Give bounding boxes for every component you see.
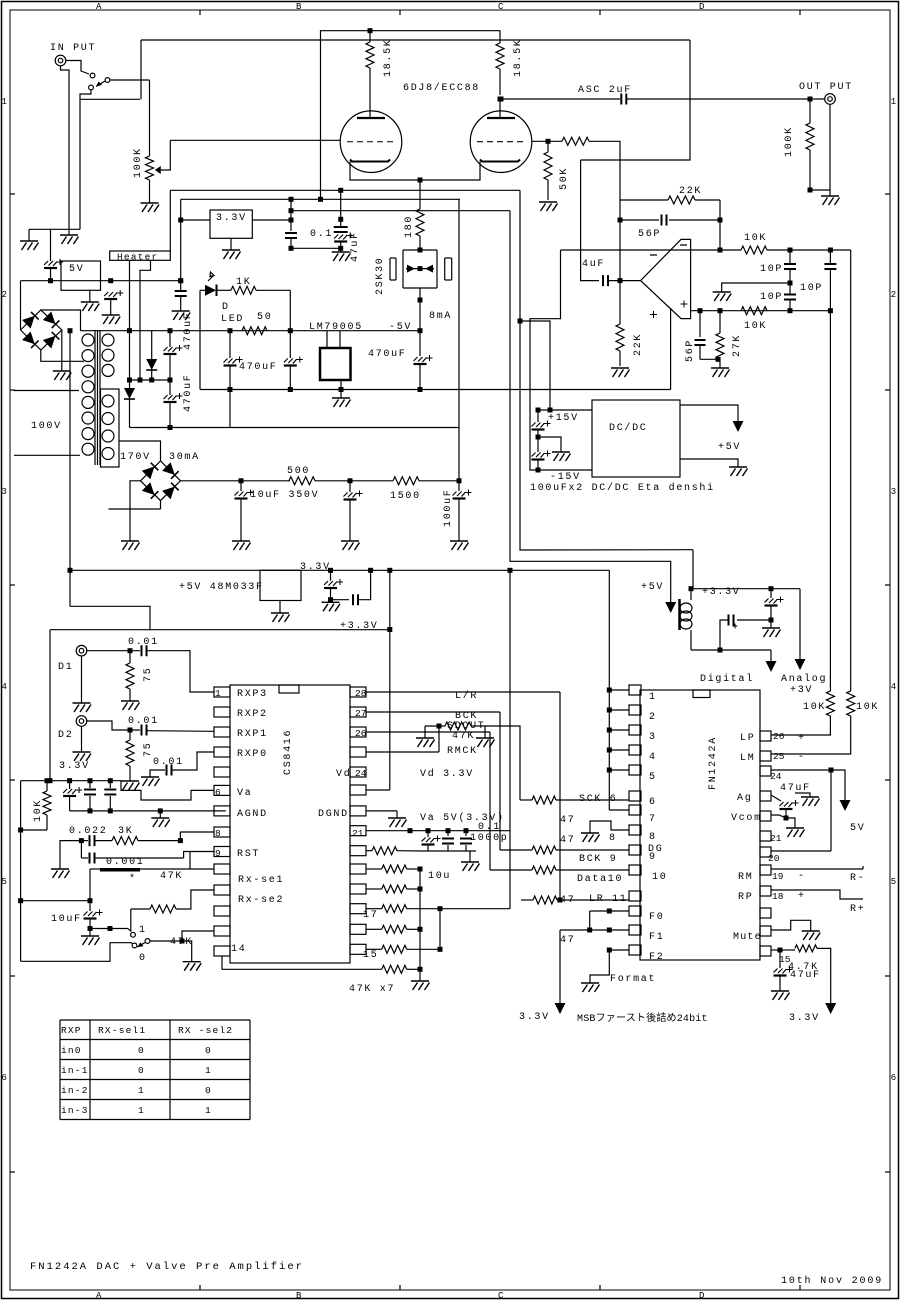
resistor 47K select1 <box>130 909 132 932</box>
svg-text:75: 75 <box>143 667 154 682</box>
svg-text:2: 2 <box>2 290 7 300</box>
border tick marks <box>199 10 201 15</box>
wire AGND into pin <box>225 810 227 812</box>
svg-text:RXP3: RXP3 <box>237 689 268 700</box>
svg-text:10uF 350V: 10uF 350V <box>250 490 319 501</box>
svg-text:0.01: 0.01 <box>128 637 159 648</box>
ground D2 jack <box>81 727 83 753</box>
svg-text:RXP: RXP <box>61 1025 82 1036</box>
wire +5V out of DC/DC <box>680 405 738 421</box>
input RCA jack J1 <box>55 55 66 66</box>
ground LM79005 <box>340 380 342 390</box>
wire rail to bridge <box>20 281 22 330</box>
resistor 1500 <box>393 477 419 485</box>
heater rail <box>81 330 421 332</box>
FN1242A right pin boxes <box>760 731 771 741</box>
svg-text:10K: 10K <box>744 321 767 332</box>
arrow Digital <box>766 661 777 672</box>
wire D1 to cap <box>87 650 140 652</box>
Heater label box <box>110 251 171 260</box>
svg-text:Vd 3.3V: Vd 3.3V <box>420 768 474 780</box>
svg-text:D: D <box>699 1291 704 1300</box>
capacitor 0.01 RXP0 <box>150 770 165 777</box>
capacitor 47uF mute <box>779 950 781 968</box>
svg-text:1000p: 1000p <box>470 833 509 844</box>
capacitor 100uF <box>458 481 460 491</box>
wire RM output <box>771 868 863 870</box>
svg-text:30mA: 30mA <box>169 452 200 463</box>
svg-text:47uF: 47uF <box>790 970 821 981</box>
switch S2 <box>131 932 136 937</box>
svg-text:Mute: Mute <box>733 932 762 943</box>
svg-text:26: 26 <box>773 731 785 742</box>
resistor 500 <box>289 477 315 485</box>
resistor 47K row18 <box>366 888 382 890</box>
svg-text:-5V: -5V <box>389 322 412 333</box>
svg-text:470uF: 470uF <box>183 373 194 412</box>
capacitor Va mid <box>89 781 91 788</box>
resistor 10K lower <box>741 307 767 315</box>
wire 3.3V drop to Va5V <box>509 570 511 908</box>
svg-text:RXP1: RXP1 <box>237 729 268 740</box>
capacitor electrolytic 5V input <box>44 261 57 266</box>
svg-text:17: 17 <box>363 910 378 921</box>
svg-text:18.5K: 18.5K <box>513 38 524 77</box>
wire DGND <box>366 810 397 812</box>
capacitor 0.1 x291 <box>290 199 292 231</box>
resistor 75 D2 <box>129 730 131 740</box>
svg-text:Vcom: Vcom <box>731 813 762 824</box>
svg-text:3: 3 <box>649 732 657 743</box>
ground RMCK right <box>484 726 486 738</box>
wire Va staircase to pin6 <box>110 781 214 800</box>
svg-text:3: 3 <box>891 487 896 497</box>
svg-text:+5V: +5V <box>718 442 741 453</box>
svg-text:RXP2: RXP2 <box>237 709 268 720</box>
capacitor 100uF x2 lower <box>537 437 539 452</box>
capacitor polarized small <box>737 619 771 621</box>
ground between 10P caps <box>722 283 790 292</box>
wire 3K to pin8 <box>180 832 214 841</box>
ground DC/DC input <box>538 437 561 452</box>
svg-text:1: 1 <box>649 692 657 703</box>
input jack D1 <box>76 645 87 656</box>
svg-text:0: 0 <box>205 1045 212 1056</box>
svg-text:10P: 10P <box>800 283 823 294</box>
capacitor 470uF left <box>229 331 231 358</box>
potentiometer 100K <box>149 80 151 156</box>
arrow 3.3V mute <box>825 1003 836 1014</box>
wire F1 to 3.3V arrow <box>560 929 629 931</box>
svg-text:5: 5 <box>891 877 896 887</box>
wire input to 4uF <box>581 160 599 281</box>
Va bus <box>21 780 111 782</box>
wire 3.3V reg out <box>252 219 291 221</box>
wire switch common to trunk <box>110 79 150 81</box>
wire to caps upper <box>788 248 793 253</box>
svg-text:1: 1 <box>139 925 147 936</box>
wire switch 0 leg <box>21 943 133 962</box>
svg-text:Heater: Heater <box>117 251 158 262</box>
capacitor 0.1 3.3V <box>331 599 350 601</box>
ground 5V regulator <box>89 290 91 302</box>
wire grid V1a <box>170 139 340 141</box>
wire BCK net <box>366 711 500 713</box>
wire inverting input <box>561 249 721 251</box>
transformer T1 HV box <box>101 389 120 467</box>
wire bar to Rx-se1 <box>190 868 214 870</box>
wire SDOUT net <box>366 731 490 733</box>
DC/DC converter box <box>592 400 680 477</box>
svg-text:in-3: in-3 <box>61 1105 89 1116</box>
svg-text:10K: 10K <box>856 702 879 713</box>
svg-text:8: 8 <box>609 833 617 844</box>
svg-text:in-1: in-1 <box>61 1065 89 1076</box>
transformer T1 secondary bumps lower <box>102 395 114 407</box>
ground 3.3V reg <box>230 238 232 250</box>
svg-text:100V: 100V <box>31 421 62 432</box>
LED indicator D3 <box>200 289 205 291</box>
resistor 47K row19 <box>366 868 382 870</box>
svg-text:+5V 48M033F: +5V 48M033F <box>179 582 264 593</box>
bridge rectifier B2 HV <box>141 461 181 501</box>
wire box line to -15V <box>510 211 671 602</box>
ground 50K <box>539 202 558 211</box>
wire cap to bottom bus <box>229 390 231 428</box>
svg-text:RST: RST <box>237 849 260 860</box>
resistor 47K RMCK <box>425 725 445 727</box>
ground top-left A <box>20 241 39 250</box>
ground +3.3V cap <box>770 620 772 628</box>
wire transformer tap <box>109 508 161 510</box>
transistor pair 2SK30 <box>418 248 423 253</box>
wire pin24 to 5V arrow <box>771 769 831 771</box>
ground 22K <box>611 368 630 377</box>
wire input shield vertical <box>79 99 81 229</box>
ground switch common <box>183 962 202 971</box>
wire +3.3V left arm <box>50 629 390 631</box>
resistor 1K <box>231 286 256 294</box>
svg-text:ASC 2uF: ASC 2uF <box>578 85 632 96</box>
capacitor 470uF -5V <box>419 331 421 356</box>
svg-text:0.1: 0.1 <box>478 822 501 833</box>
svg-text:3: 3 <box>2 487 7 497</box>
thick bar 47K star <box>90 868 100 870</box>
svg-text:50: 50 <box>257 312 272 323</box>
resistor 47K row17 <box>366 908 382 910</box>
svg-text:1: 1 <box>2 97 7 107</box>
svg-text:LM79005: LM79005 <box>309 322 363 333</box>
ground output <box>821 196 840 205</box>
svg-text:RX-sel1: RX-sel1 <box>98 1025 146 1036</box>
minus rail bottom <box>200 389 671 391</box>
svg-text:Rx-se1: Rx-se1 <box>238 875 284 886</box>
svg-text:2: 2 <box>891 290 896 300</box>
ground bridge B1 <box>61 330 63 371</box>
svg-text:4: 4 <box>649 752 657 763</box>
capacitor 0.01 D1 <box>142 645 147 656</box>
wire L/R net <box>366 691 560 693</box>
svg-text:47K: 47K <box>452 731 475 742</box>
resistor 10K LM <box>847 691 855 716</box>
resistor 18.5K right <box>496 43 504 69</box>
svg-text:LM: LM <box>740 753 755 764</box>
CS8416 right pin boxes <box>350 687 366 697</box>
ground 10uF <box>89 929 91 937</box>
svg-text:26: 26 <box>355 728 367 739</box>
Va5V bus <box>366 830 510 832</box>
svg-text:DC/DC: DC/DC <box>609 422 648 434</box>
svg-text:LR 11: LR 11 <box>589 894 628 905</box>
resistor 47K row14 <box>382 965 407 973</box>
wire +15V into box <box>538 409 592 411</box>
capacitor 0.1 + 47uF pair <box>340 190 342 226</box>
svg-text:100uFx2 DC/DC Eta denshi: 100uFx2 DC/DC Eta denshi <box>530 482 715 494</box>
svg-text:47: 47 <box>560 815 575 826</box>
svg-text:RXP0: RXP0 <box>237 749 268 760</box>
B+ staple <box>321 31 501 200</box>
svg-text:D2: D2 <box>58 730 73 741</box>
svg-text:D1: D1 <box>58 662 73 673</box>
resistor 10K mute <box>46 781 48 791</box>
wire tube box right leg <box>581 40 690 160</box>
svg-text:5V: 5V <box>69 264 84 275</box>
svg-text:Va: Va <box>237 788 252 799</box>
ground AGND <box>159 811 161 818</box>
capacitor 10uF B <box>349 481 351 492</box>
svg-text:+15V: +15V <box>548 413 579 424</box>
capacitor 10u <box>427 831 429 837</box>
svg-text:27K: 27K <box>732 334 743 357</box>
svg-text:IN PUT: IN PUT <box>50 43 96 54</box>
svg-text:R-: R- <box>850 873 865 884</box>
wire bridge B1 top to heater rail <box>41 310 81 331</box>
resistor 50K <box>547 141 549 152</box>
wire bridge B2 bottom <box>160 501 162 509</box>
svg-text:BCK 9: BCK 9 <box>579 854 618 865</box>
wire Mute ground <box>771 920 811 931</box>
capacitor ecap +3.3V <box>770 589 772 598</box>
svg-text:1: 1 <box>891 97 896 107</box>
capacitor 56P lower <box>699 311 701 337</box>
regulator LM79005 box <box>320 348 351 380</box>
ground D1 jack <box>81 656 83 703</box>
wire RMCK net <box>366 751 439 753</box>
wire switch to ground run <box>80 90 91 99</box>
svg-text:0.022: 0.022 <box>69 826 108 837</box>
wire 10uF node left <box>21 900 90 902</box>
svg-text:0.01: 0.01 <box>128 716 159 727</box>
wire 100V input upper <box>14 390 79 392</box>
wire +15V feed <box>520 190 693 550</box>
svg-text:in-2: in-2 <box>61 1085 89 1096</box>
wire Data row <box>490 869 532 871</box>
svg-text:8: 8 <box>649 832 657 843</box>
svg-text:47K: 47K <box>160 871 183 882</box>
svg-text:470uF: 470uF <box>239 362 278 373</box>
wire -15V into box <box>538 469 592 471</box>
triode V1a <box>340 111 402 173</box>
svg-text:470uF: 470uF <box>183 311 194 350</box>
wire 291 to 341 <box>291 247 341 249</box>
svg-text:6: 6 <box>215 787 221 798</box>
capacitor 0.001 <box>80 841 82 858</box>
wire 56P to 27K <box>700 358 720 360</box>
ground RMCK left <box>424 726 426 738</box>
svg-text:Analog: Analog <box>781 673 827 685</box>
svg-text:6: 6 <box>891 1073 896 1083</box>
wire jack to switch <box>66 61 89 75</box>
triode V1b <box>470 111 532 173</box>
svg-text:4uF: 4uF <box>582 259 605 270</box>
+3.3V branch <box>389 570 391 790</box>
svg-text:5V: 5V <box>850 823 865 834</box>
LED loop left edge <box>199 290 201 389</box>
wire output line <box>627 98 824 100</box>
svg-text:+3.3V: +3.3V <box>340 621 379 632</box>
capacitor electrolytic after 5V <box>104 292 117 297</box>
svg-text:in0: in0 <box>61 1045 82 1056</box>
svg-text:D: D <box>699 2 704 12</box>
wire grid V1b node <box>532 140 562 142</box>
svg-text:2: 2 <box>649 712 657 723</box>
wire from minus input to -15V <box>530 250 561 470</box>
ground Vcom <box>786 818 795 828</box>
wire 100K to integrator <box>589 141 620 200</box>
capacitor ecap Va <box>69 781 71 789</box>
wire -15V rail to op-amp <box>670 387 672 389</box>
resistor 18.5K left <box>369 31 371 42</box>
wire pin14 bottom loop <box>222 956 230 969</box>
capacitor 4uF <box>603 275 608 286</box>
IC FN1242A body <box>640 690 760 960</box>
wire B+ riser <box>458 199 460 481</box>
capacitor 56P feedback <box>618 218 623 223</box>
svg-text:C: C <box>498 2 504 12</box>
svg-text:47uF: 47uF <box>350 231 361 262</box>
svg-text:1K: 1K <box>236 277 251 288</box>
svg-text:180: 180 <box>404 215 415 238</box>
svg-text:8mA: 8mA <box>429 311 452 322</box>
svg-text:75: 75 <box>143 742 154 757</box>
svg-text:3.3V: 3.3V <box>59 761 90 772</box>
svg-text:F0: F0 <box>649 912 664 923</box>
svg-text:Format: Format <box>610 974 656 985</box>
svg-text:28: 28 <box>355 688 367 699</box>
wire 3.3V reg input <box>181 219 210 221</box>
svg-text:MSBファースト後詰め24bit: MSBファースト後詰め24bit <box>577 1011 708 1025</box>
svg-text:1500: 1500 <box>390 491 421 502</box>
wire op-amp V- down <box>670 308 672 390</box>
regulator 48M033F box <box>260 570 301 600</box>
svg-text:21: 21 <box>770 833 782 844</box>
ground 48M033F <box>279 601 281 614</box>
svg-text:DG: DG <box>648 844 663 855</box>
svg-text:0: 0 <box>139 953 147 964</box>
wire switch common to pin13 <box>150 941 192 962</box>
resistor 180 <box>419 180 421 209</box>
svg-text:10th Nov 2009: 10th Nov 2009 <box>781 1275 883 1287</box>
inductor choke 3.3V <box>678 599 681 630</box>
capacitor ASC 2uF <box>621 94 626 105</box>
transformer T1 primary bumps <box>82 334 94 346</box>
svg-text:RP: RP <box>738 892 753 903</box>
svg-text:D: D <box>222 302 230 313</box>
svg-text:A: A <box>96 1291 102 1300</box>
capacitor 100uF x2 upper <box>537 410 539 422</box>
svg-text:170V: 170V <box>120 452 151 463</box>
svg-text:1: 1 <box>205 1065 212 1076</box>
wire mid line C <box>291 210 510 212</box>
svg-text:14: 14 <box>231 944 246 955</box>
resistor 47K row16 <box>366 928 382 930</box>
wire ground left leg <box>60 841 81 869</box>
resistor 22K to ground <box>619 281 621 324</box>
svg-text:3.3V: 3.3V <box>216 213 247 224</box>
FN1242A left pin boxes <box>629 685 641 695</box>
svg-text:B: B <box>296 2 302 12</box>
svg-text:CS8416: CS8416 <box>283 729 294 775</box>
svg-text:5: 5 <box>649 772 657 783</box>
svg-text:1: 1 <box>138 1085 145 1096</box>
svg-text:0: 0 <box>138 1045 145 1056</box>
svg-text:Rx-se2: Rx-se2 <box>238 895 284 906</box>
capacitor 470uF heater upper <box>169 331 171 347</box>
resistor 50 heater <box>242 327 267 335</box>
3.3V bus to pins 1-5 <box>608 570 610 810</box>
wire bridge B2 left leg <box>130 481 141 541</box>
wire LR row <box>521 899 533 901</box>
capacitor 0.01 D2 <box>142 725 147 736</box>
wire SCK row <box>520 799 532 801</box>
svg-text:19: 19 <box>772 871 784 882</box>
3.3V trunk <box>70 569 609 571</box>
regulator 3.3V box <box>210 210 252 238</box>
arrow Analog <box>795 659 806 670</box>
svg-text:A: A <box>96 2 102 12</box>
capacitor 10uF mute <box>89 901 91 911</box>
svg-text:470uF: 470uF <box>368 349 407 360</box>
pot wiper arrow <box>155 166 161 174</box>
resistor 47K row15 <box>366 948 382 950</box>
svg-text:27: 27 <box>355 708 366 719</box>
svg-text:24: 24 <box>770 771 782 782</box>
wire heater label stem <box>169 190 171 251</box>
heater bottom rail <box>130 427 460 429</box>
svg-text:3K: 3K <box>118 826 133 837</box>
svg-text:+5V: +5V <box>641 582 664 593</box>
svg-text:10P: 10P <box>760 264 783 275</box>
svg-text:50K: 50K <box>559 167 570 190</box>
AGND bus <box>70 810 226 812</box>
wire mid line B <box>181 198 460 200</box>
svg-text:20: 20 <box>768 853 780 864</box>
wire noninverting input <box>691 310 831 312</box>
svg-text:100K: 100K <box>133 147 144 178</box>
svg-text:B: B <box>296 1291 302 1300</box>
svg-text:LED: LED <box>221 314 244 325</box>
svg-text:3.3V: 3.3V <box>300 562 331 573</box>
svg-text:15: 15 <box>363 950 378 961</box>
svg-text:+: + <box>798 891 806 902</box>
svg-text:AGND: AGND <box>237 809 268 820</box>
svg-text:8: 8 <box>215 828 221 839</box>
svg-text:7: 7 <box>649 814 657 825</box>
CS8416 left pin boxes <box>214 687 230 697</box>
svg-text:Digital: Digital <box>700 673 754 685</box>
svg-text:6: 6 <box>2 1073 7 1083</box>
wire Va bus corner down <box>20 781 22 962</box>
